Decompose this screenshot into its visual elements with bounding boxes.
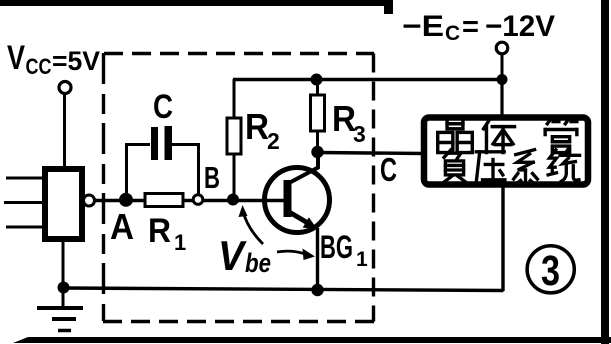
svg-text:=: = <box>462 11 479 43</box>
svg-text:C: C <box>380 151 397 188</box>
wire -Ec terminal to node <box>501 54 504 80</box>
svg-text:A: A <box>110 206 134 247</box>
node A <box>119 193 133 207</box>
wire collector node to box <box>317 153 422 154</box>
wire box bottom to bottom rail <box>501 185 504 291</box>
node ground junction <box>58 282 70 294</box>
capacitor C branch wires <box>127 145 199 197</box>
svg-text:R: R <box>245 106 269 147</box>
resistor R3 <box>311 79 325 152</box>
wire connector bottom to ground node <box>62 242 65 288</box>
node R3 top junction <box>311 74 323 86</box>
label 晶体管 row <box>438 119 577 153</box>
wire Vcc terminal to connector <box>63 93 66 169</box>
arrow Vbe to base <box>239 205 264 244</box>
label R3 <box>332 98 366 147</box>
figure number 3 <box>527 246 574 295</box>
char 系 <box>514 150 538 184</box>
box negative voltage system <box>424 118 588 185</box>
wire -Ec node to box top <box>500 79 503 118</box>
svg-text:−12V: −12V <box>485 10 555 43</box>
svg-text:3: 3 <box>541 247 560 295</box>
wire base: output terminal to transistor <box>95 199 286 203</box>
svg-text:BG: BG <box>320 229 353 265</box>
arrow Vbe to emitter <box>277 249 315 261</box>
char 统 <box>548 150 580 182</box>
svg-text:V: V <box>218 232 247 279</box>
label Vcc=5V <box>7 39 100 79</box>
node R2-base junction <box>227 194 239 206</box>
wire emitter down <box>316 228 319 291</box>
resistor R2 <box>227 79 241 199</box>
node -Ec junction <box>497 74 508 85</box>
terminal Vcc <box>59 82 71 94</box>
terminal connector output <box>84 195 95 206</box>
terminal -Ec <box>496 42 508 54</box>
node emitter-bottom junction <box>311 284 323 296</box>
svg-text:C: C <box>445 22 460 45</box>
char 负 <box>443 150 466 183</box>
svg-text:B: B <box>204 160 220 195</box>
node B <box>193 195 203 205</box>
label BG1 <box>320 229 368 271</box>
char 体 <box>484 119 515 153</box>
wire bottom rail <box>63 288 504 291</box>
wire connector left pin 3 <box>6 226 42 229</box>
node collector junction <box>311 146 323 158</box>
label R1 <box>148 212 186 255</box>
svg-text:be: be <box>245 248 271 278</box>
svg-text:1: 1 <box>174 230 186 255</box>
label -Ec=-12V <box>402 10 555 45</box>
label 负压系统 row <box>443 150 579 184</box>
connector block J1 <box>45 169 82 239</box>
svg-text:1: 1 <box>356 248 368 271</box>
svg-text:CC: CC <box>26 54 52 79</box>
resistor R1 <box>145 194 183 207</box>
svg-text:R: R <box>148 212 171 250</box>
wire connector left pin 1 <box>6 177 42 180</box>
svg-text:=5V: =5V <box>52 46 100 76</box>
dashed box <box>103 53 374 322</box>
wire connector left pin 2 <box>4 201 42 204</box>
char 晶 <box>438 119 473 153</box>
char 管 <box>545 119 577 153</box>
label Vbe <box>218 232 271 279</box>
svg-text:2: 2 <box>267 128 280 154</box>
svg-text:−E: −E <box>402 10 444 43</box>
capacitor C plates <box>151 127 158 160</box>
svg-text:V: V <box>7 39 25 77</box>
label R2 <box>245 106 280 154</box>
wire top rail <box>233 78 502 81</box>
svg-text:C: C <box>153 88 173 126</box>
svg-text:3: 3 <box>353 121 366 147</box>
transistor BG1 <box>265 153 330 233</box>
ground <box>37 288 83 331</box>
char 压 <box>476 152 505 183</box>
